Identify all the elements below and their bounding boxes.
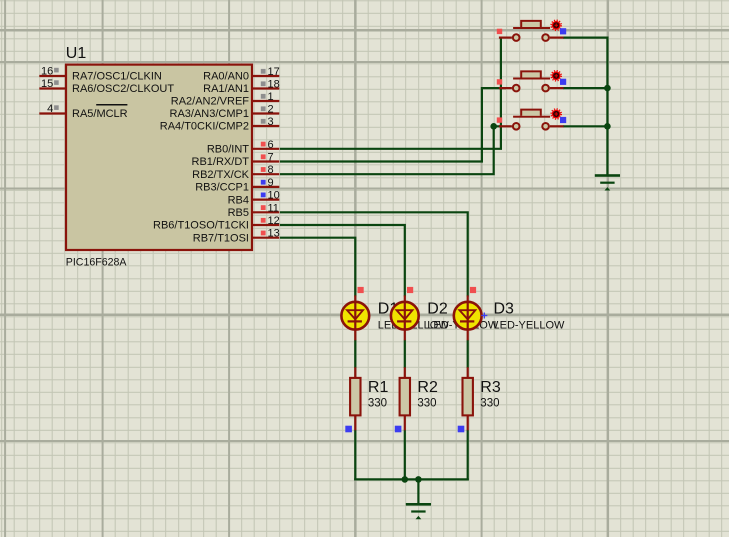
D2 refdes label bbox=[427, 301, 448, 318]
D2 value label LED-YELLOW bbox=[427, 320, 499, 332]
LED D2 lead bbox=[404, 295, 406, 340]
ground symbol (LED cathode bus) bbox=[406, 503, 431, 519]
svg-text:17: 17 bbox=[268, 66, 280, 78]
wire RB6 pin12 to LED D2 anode bbox=[280, 225, 405, 297]
svg-text:9: 9 bbox=[268, 177, 274, 189]
logic state marker (blue) at R3 bottom bbox=[458, 426, 465, 433]
svg-text:13: 13 bbox=[268, 228, 280, 240]
logic state marker (red) button 2 left bbox=[497, 79, 502, 84]
resistor R3 leads bbox=[467, 367, 469, 430]
svg-text:RB1/RX/DT: RB1/RX/DT bbox=[192, 156, 250, 168]
svg-text:LED-YELLOW: LED-YELLOW bbox=[494, 320, 566, 332]
wire RB1 pin7 to button 2 left terminal bbox=[280, 88, 506, 161]
wire resistor R3 to ground bus bbox=[467, 430, 469, 481]
push button 3 actuator icon bbox=[551, 109, 561, 119]
pin 18 (RA1/AN1) bbox=[203, 79, 280, 96]
junction ground stem on bus bbox=[415, 476, 422, 483]
LED D3 lead bbox=[467, 295, 469, 340]
logic state marker (red) at D3 anode bbox=[470, 287, 476, 293]
svg-text:RA4/T0CKI/CMP2: RA4/T0CKI/CMP2 bbox=[160, 121, 249, 133]
svg-text:1: 1 bbox=[268, 91, 274, 103]
push button 1 actuator icon bbox=[551, 20, 561, 30]
D3 value label LED-YELLOW bbox=[494, 320, 566, 332]
svg-text:RB5: RB5 bbox=[228, 207, 249, 219]
pin 11 (RB5) bbox=[228, 202, 280, 219]
svg-text:3: 3 bbox=[268, 116, 274, 128]
logic state marker (blue) at R2 bottom bbox=[395, 426, 402, 433]
svg-text:2: 2 bbox=[268, 104, 274, 116]
wire button 2 right terminal to ground rail bbox=[563, 87, 607, 89]
pin 9 (RB3/CCP1) bbox=[195, 177, 279, 194]
junction node at button 3 left terminal bbox=[490, 123, 497, 130]
logic state marker (blue) button 3 right bbox=[560, 117, 566, 123]
wire ground rail vertical bbox=[606, 38, 608, 176]
svg-text:8: 8 bbox=[268, 164, 274, 176]
svg-text:RB0/INT: RB0/INT bbox=[207, 144, 249, 156]
svg-text:RB6/T1OSO/T1CKI: RB6/T1OSO/T1CKI bbox=[153, 220, 249, 232]
IC U1 PIC16F628A body bbox=[66, 65, 252, 250]
LED D1 lead bbox=[354, 295, 356, 340]
D1 refdes label bbox=[378, 301, 399, 318]
svg-text:18: 18 bbox=[268, 79, 280, 91]
pin 13 (RB7/T1OSI) bbox=[193, 228, 280, 245]
pin 17 (RA0/AN0) bbox=[203, 66, 280, 83]
pin 15 (RA6/OSC2/CLKOUT) bbox=[39, 78, 174, 95]
wire LED D1 cathode to resistor R1 bbox=[354, 340, 356, 368]
wire resistor R1 to ground bus bbox=[354, 430, 356, 481]
push button 2 body bbox=[513, 71, 550, 79]
svg-text:RA5/MCLR: RA5/MCLR bbox=[72, 108, 128, 120]
logic state marker (blue) button 1 right bbox=[560, 28, 566, 34]
svg-text:330: 330 bbox=[368, 398, 387, 410]
svg-text:15: 15 bbox=[41, 78, 53, 90]
pin 4 (RA5/MCLR) bbox=[39, 103, 127, 120]
push button 3 right terminal pin bbox=[542, 123, 563, 130]
resistor R2 body bbox=[400, 378, 410, 416]
R1 value label 330 bbox=[368, 398, 387, 410]
wire ground bus horizontal bbox=[354, 478, 469, 480]
wire LED D3 cathode to resistor R3 bbox=[467, 340, 469, 368]
logic state marker (blue) at R1 bottom bbox=[345, 426, 352, 433]
push button 3 body bbox=[513, 110, 550, 118]
push button 2 actuator icon bbox=[551, 71, 561, 81]
push button 3 left terminal pin bbox=[499, 123, 520, 130]
svg-text:11: 11 bbox=[268, 202, 279, 214]
R2 refdes label bbox=[417, 379, 438, 396]
U1 value label PIC16F628A bbox=[66, 256, 128, 268]
svg-text:U1: U1 bbox=[66, 45, 87, 62]
wire RB0 pin6 to button 1 left terminal bbox=[280, 38, 501, 149]
logic state marker (red) at D2 anode bbox=[407, 287, 413, 293]
junction button 3 rail bbox=[604, 123, 611, 130]
wire RB5 pin11 to LED D3 anode bbox=[280, 212, 468, 296]
R1 refdes label bbox=[368, 379, 389, 396]
D1 value label LED-YELLOW bbox=[378, 320, 450, 332]
logic state marker (red) button 1 left bbox=[497, 29, 502, 34]
svg-text:RA3/AN3/CMP1: RA3/AN3/CMP1 bbox=[170, 108, 249, 120]
pin 8 (RB2/TX/CK) bbox=[192, 164, 279, 181]
svg-text:6: 6 bbox=[268, 139, 274, 151]
logic state marker (red) at D1 anode bbox=[358, 287, 364, 293]
push button 1 body bbox=[513, 21, 550, 29]
pin 6 (RB0/INT) bbox=[207, 139, 279, 156]
pin 1 (RA2/AN2/VREF) bbox=[171, 91, 280, 108]
svg-text:RB4: RB4 bbox=[228, 194, 249, 206]
resistor R1 leads bbox=[354, 367, 356, 430]
wire resistor R2 to ground bus bbox=[404, 430, 406, 481]
svg-text:R1: R1 bbox=[368, 379, 389, 396]
svg-text:330: 330 bbox=[480, 398, 499, 410]
svg-text:RA2/AN2/VREF: RA2/AN2/VREF bbox=[171, 96, 250, 108]
svg-text:RB3/CCP1: RB3/CCP1 bbox=[195, 182, 249, 194]
ground symbol (buttons) bbox=[595, 174, 620, 190]
wire LED D2 cathode to resistor R2 bbox=[404, 340, 406, 368]
wire bus to ground symbol bbox=[417, 479, 419, 504]
push button 2 right terminal pin bbox=[542, 85, 563, 92]
pin 2 (RA3/AN3/CMP1) bbox=[170, 104, 280, 121]
pin 16 (RA7/OSC1/CLKIN) bbox=[39, 66, 162, 83]
svg-text:16: 16 bbox=[41, 66, 53, 78]
wire button 1 right terminal to ground rail bbox=[563, 36, 609, 38]
svg-text:RA1/AN1: RA1/AN1 bbox=[203, 83, 249, 95]
junction R2 column on ground bus bbox=[402, 476, 409, 483]
R3 refdes label bbox=[480, 379, 501, 396]
resistor R3 body bbox=[463, 378, 473, 416]
svg-text:10: 10 bbox=[268, 190, 280, 202]
svg-text:RA7/OSC1/CLKIN: RA7/OSC1/CLKIN bbox=[72, 71, 162, 83]
svg-text:D2: D2 bbox=[427, 301, 448, 318]
D3 refdes label bbox=[494, 301, 515, 318]
LED D3 body bbox=[454, 302, 482, 330]
svg-text:PIC16F628A: PIC16F628A bbox=[66, 256, 128, 268]
logic state marker (blue) button 2 right bbox=[560, 79, 566, 85]
svg-text:RA6/OSC2/CLKOUT: RA6/OSC2/CLKOUT bbox=[72, 83, 174, 95]
pin 3 (RA4/T0CKI/CMP2) bbox=[160, 116, 280, 133]
svg-text:RA0/AN0: RA0/AN0 bbox=[203, 71, 249, 83]
logic state marker (red) button 3 left bbox=[497, 117, 502, 122]
pin 10 (RB4) bbox=[228, 190, 280, 207]
junction button 2 rail bbox=[604, 85, 611, 92]
resistor R1 body bbox=[350, 378, 360, 416]
origin marker D3 bbox=[481, 313, 487, 319]
push button 2 left terminal pin bbox=[499, 85, 520, 92]
wire RB7 pin13 to LED D1 anode bbox=[280, 238, 355, 297]
svg-text:R3: R3 bbox=[480, 379, 501, 396]
svg-text:12: 12 bbox=[268, 215, 280, 227]
pin 12 (RB6/T1OSO/T1CKI) bbox=[153, 215, 280, 232]
R2 value label 330 bbox=[417, 398, 436, 410]
svg-text:RB2/TX/CK: RB2/TX/CK bbox=[192, 169, 250, 181]
pin 7 (RB1/RX/DT) bbox=[192, 152, 280, 169]
push button 1 right terminal pin bbox=[542, 34, 563, 41]
svg-text:4: 4 bbox=[47, 103, 53, 115]
wire button 3 right terminal to ground rail bbox=[563, 125, 607, 127]
R3 value label 330 bbox=[480, 398, 499, 410]
LED D1 body bbox=[341, 302, 369, 330]
svg-text:R2: R2 bbox=[417, 379, 438, 396]
resistor R2 leads bbox=[404, 367, 406, 430]
wire RB2 pin8 to button 3 left terminal bbox=[280, 126, 500, 174]
svg-text:RB7/T1OSI: RB7/T1OSI bbox=[193, 232, 249, 244]
U1 refdes label bbox=[66, 45, 87, 62]
svg-text:7: 7 bbox=[268, 152, 274, 164]
svg-text:D3: D3 bbox=[494, 301, 515, 318]
push button 1 left terminal pin bbox=[499, 34, 520, 41]
svg-text:330: 330 bbox=[417, 398, 436, 410]
LED D2 body bbox=[391, 302, 419, 330]
